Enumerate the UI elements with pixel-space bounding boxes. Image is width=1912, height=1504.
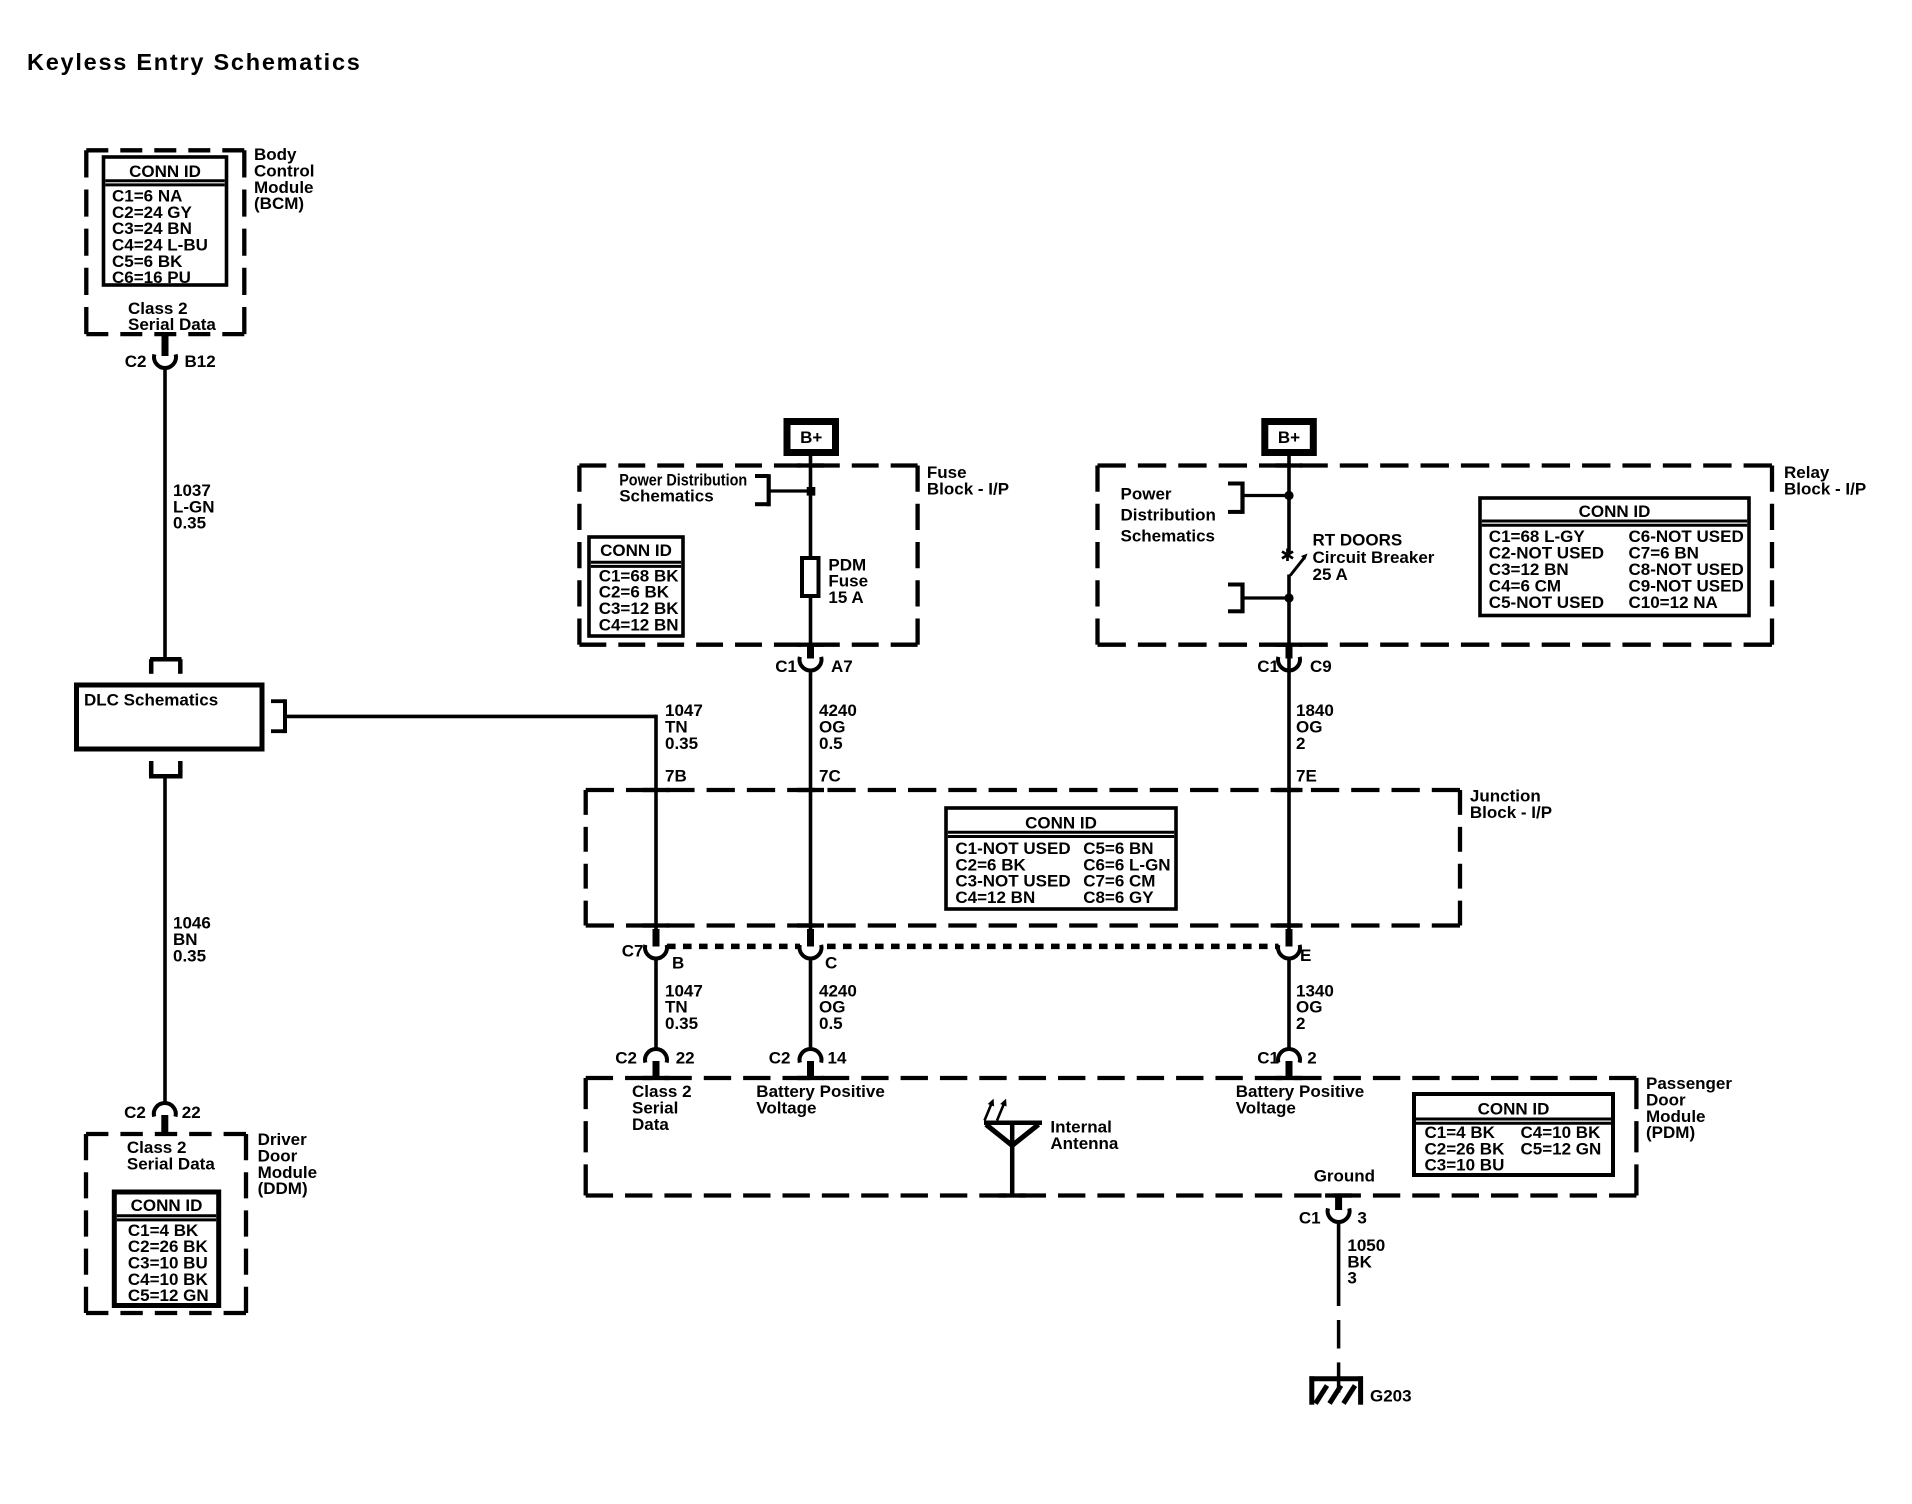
svg-text:Antenna: Antenna	[1050, 1134, 1119, 1153]
svg-text:CONN ID: CONN ID	[1478, 1100, 1550, 1119]
svg-text:CONN ID: CONN ID	[131, 1196, 203, 1215]
svg-text:C: C	[825, 954, 837, 973]
svg-text:Block - I/P: Block - I/P	[1784, 480, 1866, 499]
svg-text:C2: C2	[124, 1103, 146, 1122]
svg-text:Voltage: Voltage	[756, 1099, 816, 1118]
svg-text:C1: C1	[1257, 1048, 1279, 1067]
svg-text:(BCM): (BCM)	[254, 194, 304, 213]
svg-text:C1: C1	[775, 657, 797, 676]
svg-text:C3=10 BU: C3=10 BU	[1425, 1155, 1505, 1174]
svg-text:G203: G203	[1370, 1387, 1412, 1406]
svg-text:Keyless Entry Schematics: Keyless Entry Schematics	[27, 49, 362, 75]
svg-text:Serial Data: Serial Data	[127, 1154, 215, 1173]
svg-text:A7: A7	[831, 657, 853, 676]
svg-text:C6=16 PU: C6=16 PU	[112, 268, 191, 287]
svg-text:B+: B+	[800, 428, 822, 447]
svg-text:DLC Schematics: DLC Schematics	[84, 690, 218, 709]
svg-text:C4=12 BN: C4=12 BN	[599, 615, 679, 634]
svg-text:Power: Power	[1121, 485, 1172, 504]
svg-text:E: E	[1300, 946, 1311, 965]
svg-text:C1: C1	[1257, 657, 1279, 676]
svg-text:Schematics: Schematics	[619, 487, 714, 506]
svg-text:Distribution: Distribution	[1121, 506, 1216, 525]
svg-text:7B: 7B	[665, 767, 687, 786]
svg-text:7C: 7C	[819, 767, 841, 786]
svg-text:15 A: 15 A	[828, 588, 863, 607]
svg-text:(PDM): (PDM)	[1646, 1123, 1695, 1142]
svg-text:0.35: 0.35	[173, 514, 206, 533]
svg-text:Schematics: Schematics	[1121, 526, 1216, 545]
svg-text:B12: B12	[185, 352, 216, 371]
svg-text:C10=12 NA: C10=12 NA	[1629, 593, 1718, 612]
svg-text:22: 22	[676, 1048, 695, 1067]
svg-text:Circuit Breaker: Circuit Breaker	[1313, 548, 1435, 567]
svg-text:Block - I/P: Block - I/P	[927, 480, 1009, 499]
svg-text:B: B	[672, 954, 684, 973]
svg-text:Data: Data	[632, 1115, 669, 1134]
svg-text:Voltage: Voltage	[1236, 1099, 1296, 1118]
svg-text:C5=12 GN: C5=12 GN	[128, 1286, 209, 1305]
svg-text:CONN ID: CONN ID	[600, 541, 672, 560]
svg-text:C2: C2	[615, 1048, 637, 1067]
svg-text:C5=12 GN: C5=12 GN	[1521, 1139, 1602, 1158]
svg-text:C4=12 BN: C4=12 BN	[955, 888, 1035, 907]
svg-text:14: 14	[828, 1048, 847, 1067]
svg-text:Ground: Ground	[1314, 1167, 1375, 1186]
svg-text:C9: C9	[1310, 657, 1332, 676]
svg-text:C2: C2	[125, 352, 147, 371]
svg-text:CONN ID: CONN ID	[1025, 814, 1097, 833]
svg-text:0.35: 0.35	[173, 946, 206, 965]
svg-text:0.5: 0.5	[819, 734, 843, 753]
svg-text:C5-NOT USED: C5-NOT USED	[1489, 593, 1604, 612]
svg-text:CONN ID: CONN ID	[129, 162, 201, 181]
svg-text:0.35: 0.35	[665, 734, 698, 753]
svg-text:C1: C1	[1299, 1209, 1321, 1228]
svg-text:25 A: 25 A	[1313, 565, 1348, 584]
svg-text:B+: B+	[1278, 428, 1300, 447]
svg-text:C7: C7	[622, 941, 644, 960]
svg-text:7E: 7E	[1296, 767, 1317, 786]
svg-text:0.35: 0.35	[665, 1014, 698, 1033]
svg-text:Serial Data: Serial Data	[128, 315, 216, 334]
svg-text:0.5: 0.5	[819, 1014, 843, 1033]
svg-text:2: 2	[1307, 1048, 1316, 1067]
svg-text:RT DOORS: RT DOORS	[1313, 530, 1403, 549]
svg-text:3: 3	[1347, 1269, 1356, 1288]
svg-text:2: 2	[1296, 1014, 1305, 1033]
svg-text:CONN ID: CONN ID	[1579, 502, 1651, 521]
svg-text:C8=6 GY: C8=6 GY	[1083, 888, 1154, 907]
svg-text:22: 22	[182, 1103, 201, 1122]
svg-text:3: 3	[1357, 1209, 1366, 1228]
svg-text:2: 2	[1296, 734, 1305, 753]
svg-text:C2: C2	[769, 1048, 791, 1067]
svg-text:(DDM): (DDM)	[258, 1179, 308, 1198]
svg-text:Block - I/P: Block - I/P	[1470, 803, 1552, 822]
